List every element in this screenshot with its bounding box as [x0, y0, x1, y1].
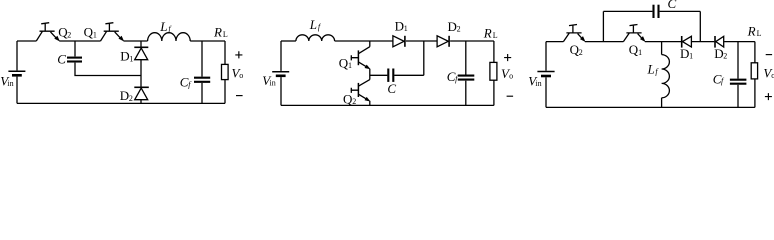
wire: upper branch left horizontal (c3)	[603, 10, 652, 12]
transistor Q2 (c2)	[351, 80, 370, 102]
transistor Q1 (c3)	[623, 25, 645, 42]
wire: c1 left rail bottom	[16, 77, 18, 104]
svg-text:1: 1	[93, 30, 97, 39]
wire: upper branch right horizontal (c3)	[660, 10, 701, 12]
svg-text:L: L	[493, 31, 498, 40]
svg-text:D: D	[395, 19, 404, 34]
diode D1 (c3) triangle	[683, 36, 692, 47]
svg-text:1: 1	[129, 54, 133, 63]
wire: Cf bottom stub (c1)	[201, 83, 203, 104]
wire: Cf branch top stub (c2)	[465, 41, 467, 75]
wire: Cf bottom stub (c2)	[465, 81, 467, 106]
wire: c1 top rail segment D	[190, 40, 225, 42]
wire: c1 mid vertical between D1 and D2 (junction at y=75.4)	[140, 60, 142, 87]
wire: c2 right rail bottom	[493, 80, 495, 105]
transistor Q2 (c3)	[563, 25, 585, 42]
wire: c1 right rail bottom	[224, 80, 226, 104]
wire: Lf bottom stub (c3)	[661, 98, 663, 108]
svg-text:o: o	[239, 71, 243, 80]
diode D1 (c1) cathode bar	[134, 46, 148, 48]
svg-text:2: 2	[723, 52, 727, 61]
wire: c3 bottom rail	[546, 106, 755, 108]
wire: Cf branch top stub (c3)	[737, 42, 739, 79]
svg-text:2: 2	[352, 97, 356, 106]
svg-text:C: C	[668, 0, 677, 11]
transistor Q1 (c2)	[351, 47, 370, 69]
svg-text:in: in	[7, 79, 13, 88]
svg-text:L: L	[159, 19, 167, 34]
resistor RL (c1)	[222, 64, 229, 79]
wire: c3 top rail segment D (junction at x=700.3)	[692, 41, 714, 43]
svg-text:in: in	[270, 79, 276, 88]
wire: c3 top rail segment B (junction at x=603.4)	[585, 41, 624, 43]
wire: c2 top rail segment B (junction at x=369.8)	[335, 40, 393, 42]
wire: capacitor C branch top stub (c1)	[74, 41, 76, 56]
capacitor Cf (c2) plates	[458, 76, 475, 80]
wire: c2 bottom rail	[281, 104, 494, 106]
svg-text:1: 1	[348, 61, 352, 70]
svg-text:f: f	[168, 24, 172, 33]
capacitor C (c1) plates	[67, 58, 82, 62]
wire: c1 left rail top	[16, 41, 18, 70]
wire: c2 left rail top	[280, 41, 282, 71]
wire: Q2 emitter to bottom rail (c2)	[369, 101, 371, 106]
wire: c3 right rail top	[754, 42, 756, 63]
svg-text:D: D	[680, 46, 689, 61]
svg-text:L: L	[309, 17, 317, 32]
wire: c1 top rail segment C (with junction at x=141)	[124, 40, 148, 42]
capacitor Cf (c3) plates	[730, 80, 747, 84]
battery Vin (c1) long plate	[8, 70, 25, 72]
svg-text:2: 2	[457, 24, 461, 33]
wire: c2 top rail segment C (junction at x=423.8)	[406, 40, 437, 42]
svg-text:o: o	[509, 71, 513, 80]
wire: riser from C to rail between D1 and D2 (c2)	[423, 41, 425, 75]
battery Vin (c3) long plate	[537, 71, 554, 73]
svg-text:f: f	[318, 22, 322, 31]
svg-text:C: C	[57, 51, 66, 66]
wire: c2 top rail segment A	[281, 40, 296, 42]
diode D1 (c1) triangle	[135, 48, 148, 60]
capacitor C (c2) plates	[388, 69, 393, 82]
plus sign (c3 output)	[765, 93, 772, 100]
resistor RL (c3)	[751, 63, 757, 79]
diode D1 (c2)	[393, 36, 405, 47]
minus sign (c3 output)	[766, 54, 772, 56]
wire: c2 mid vertical (Q1 emitter to node, node to Q2 collector)	[369, 69, 371, 80]
wire: c3 right rail bottom	[754, 79, 756, 108]
transistor Q2 (c1)	[36, 23, 59, 41]
wire: c2 left rail bottom	[280, 77, 282, 105]
plus sign (c2 output)	[504, 54, 511, 61]
svg-text:L: L	[223, 30, 228, 39]
diode D2 (c2)	[437, 36, 449, 47]
svg-text:f: f	[721, 77, 725, 86]
svg-text:1: 1	[638, 48, 642, 57]
wire: c2 right rail top	[493, 41, 495, 62]
svg-text:f: f	[188, 80, 192, 89]
battery Vin (c1) short plate	[12, 74, 22, 77]
svg-text:L: L	[757, 29, 762, 38]
inductor Lf (c3, vertical)	[662, 55, 670, 98]
capacitor Cf (c1) plates	[194, 78, 210, 82]
svg-text:R: R	[747, 23, 756, 38]
wire: upper branch left riser (c3)	[602, 11, 604, 41]
battery Vin (c2) short plate	[276, 75, 286, 78]
svg-text:D: D	[120, 88, 129, 103]
wire: c3 top rail segment C (junction at x=661.6)	[645, 41, 681, 43]
svg-text:R: R	[213, 24, 222, 39]
battery Vin (c3) short plate	[541, 75, 551, 78]
wire: c1 top rail segment B	[59, 40, 100, 42]
svg-text:R: R	[483, 26, 492, 41]
wire: c3 left rail top	[545, 42, 547, 71]
wire: capacitor C to riser (c2)	[394, 74, 424, 76]
diode D2 (c3) cathode bar	[714, 36, 716, 48]
svg-text:f: f	[655, 67, 659, 76]
wire: Q1 collector drop (c2)	[369, 41, 371, 47]
svg-text:2: 2	[129, 94, 133, 103]
wire: Cf bottom stub (c3)	[737, 85, 739, 108]
svg-text:D: D	[714, 46, 723, 61]
minus sign (c2 output)	[507, 95, 513, 97]
capacitor C (c3) plates	[654, 5, 659, 18]
svg-text:2: 2	[67, 30, 71, 39]
inductor Lf (c2)	[296, 35, 335, 41]
diode D2 (c1) cathode bar	[134, 86, 149, 88]
wire: C bottom stub and link to diode leg (c1)	[75, 63, 141, 76]
wire: c3 top rail segment E (junction at x=738)	[724, 41, 755, 43]
wire: mid node to capacitor C (c2)	[370, 74, 388, 76]
diode D2 (c1) triangle	[135, 88, 148, 100]
wire: upper branch right riser (c3)	[699, 11, 701, 41]
svg-text:2: 2	[579, 48, 583, 57]
svg-text:1: 1	[689, 52, 693, 61]
inductor Lf (c1)	[148, 33, 191, 41]
wire: Lf top stub (c3)	[661, 42, 663, 55]
wire: capacitor Cf branch top stub (c1)	[201, 41, 203, 77]
svg-text:in: in	[535, 79, 541, 88]
wire: c1 top rail segment A	[17, 40, 36, 42]
wire: c1 mid vertical upper stub	[140, 41, 142, 47]
transistor Q1 (c1)	[101, 23, 124, 41]
svg-text:L: L	[647, 62, 655, 77]
wire: c2 top rail segment D (junction at x=465.8)	[450, 40, 494, 42]
resistor RL (c2)	[490, 62, 497, 80]
svg-text:C: C	[387, 81, 396, 96]
svg-text:D: D	[448, 19, 457, 34]
wire: c1 right rail top	[224, 41, 226, 64]
wire: c3 left rail bottom	[545, 77, 547, 107]
wire: c1 mid vertical lower stub	[140, 100, 142, 104]
wire: c3 top rail segment A	[546, 41, 563, 43]
plus sign (c1 output)	[235, 51, 242, 58]
diode D1 (c3) cathode bar	[681, 36, 683, 48]
diode D2 (c3) triangle	[716, 36, 724, 47]
svg-text:D: D	[120, 49, 129, 64]
minus sign (c1 output)	[236, 95, 243, 97]
wire: c1 bottom rail	[17, 102, 225, 104]
svg-text:1: 1	[404, 24, 408, 33]
battery Vin (c2) long plate	[272, 71, 289, 73]
